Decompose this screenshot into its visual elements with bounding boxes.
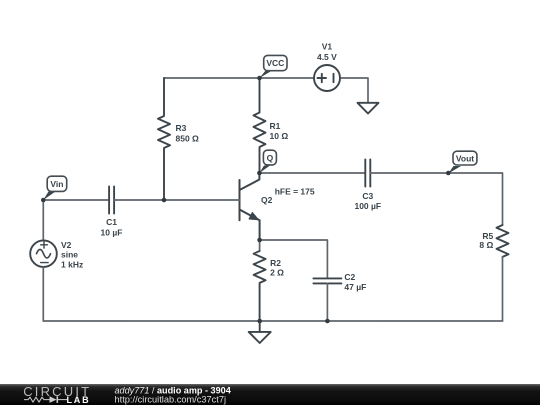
svg-text:850 Ω: 850 Ω xyxy=(176,134,200,144)
wire emitter to R2 xyxy=(259,240,261,251)
svg-text:R3: R3 xyxy=(176,123,187,133)
junction bottom ground xyxy=(257,319,262,324)
svg-text:Q: Q xyxy=(267,153,274,163)
svg-text:sine: sine xyxy=(61,250,78,260)
wire emitter tee to C2 xyxy=(260,240,328,278)
logo resistor-diode line xyxy=(24,397,67,402)
svg-text:Q2: Q2 xyxy=(261,195,273,205)
svg-text:V2: V2 xyxy=(61,240,72,250)
wire V2 to bottom rail xyxy=(42,267,44,321)
voltage source V2 xyxy=(30,240,57,267)
voltage source V1 xyxy=(314,65,340,91)
svg-text:VCC: VCC xyxy=(266,58,284,68)
svg-text:47 µF: 47 µF xyxy=(344,282,366,292)
svg-text:4.5 V: 4.5 V xyxy=(317,52,337,62)
node tag VCC xyxy=(260,55,288,78)
svg-text:http://circuitlab.com/c37ct7j: http://circuitlab.com/c37ct7j xyxy=(115,394,227,404)
svg-text:C1: C1 xyxy=(106,217,117,227)
junction C2 bottom xyxy=(325,319,330,324)
wire C3 to R5 corner xyxy=(370,173,502,225)
junction R3-base xyxy=(162,198,167,203)
transistor Q2 xyxy=(240,173,260,240)
wire top rail VCC xyxy=(164,77,314,79)
resistor R3 xyxy=(158,78,170,200)
resistor R2 xyxy=(254,251,266,321)
junction VCC node xyxy=(257,76,262,81)
junction emitter node xyxy=(257,238,262,243)
wire C2 to bottom rail xyxy=(326,283,328,321)
svg-text:R1: R1 xyxy=(270,121,281,131)
svg-text:Vout: Vout xyxy=(456,153,474,163)
svg-text:hFE = 175: hFE = 175 xyxy=(275,187,315,197)
wire bottom rail xyxy=(43,320,502,322)
resistor R1 xyxy=(254,78,266,173)
capacitor C2 xyxy=(313,278,341,283)
wire V1 right to ground xyxy=(340,78,368,103)
svg-text:Vin: Vin xyxy=(50,179,63,189)
resistor R5 xyxy=(497,225,509,257)
svg-text:10 µF: 10 µF xyxy=(101,228,123,238)
svg-text:100 µF: 100 µF xyxy=(354,201,381,211)
svg-text:V1: V1 xyxy=(322,42,333,52)
junction collector node xyxy=(257,171,262,176)
ground (near V1) xyxy=(358,103,379,114)
node tag Q xyxy=(259,150,276,173)
wire collector to C3 xyxy=(260,172,366,174)
capacitor C3 xyxy=(365,160,370,187)
wire input rail right to base xyxy=(114,199,239,201)
svg-text:2 Ω: 2 Ω xyxy=(270,268,284,278)
svg-text:R2: R2 xyxy=(270,258,281,268)
svg-text:C3: C3 xyxy=(362,191,373,201)
wire Vin to V2 xyxy=(42,200,44,241)
svg-text:10 Ω: 10 Ω xyxy=(270,131,289,141)
node tag Vout xyxy=(448,151,477,173)
wire R5 to bottom rail xyxy=(502,257,504,321)
svg-text:C2: C2 xyxy=(344,272,355,282)
svg-text:1 kHz: 1 kHz xyxy=(61,260,83,270)
logo diode xyxy=(50,396,59,403)
svg-text:LAB: LAB xyxy=(67,395,91,405)
capacitor C1 xyxy=(109,187,114,214)
svg-text:8 Ω: 8 Ω xyxy=(479,240,493,250)
junction Vin node xyxy=(41,198,46,203)
ground (bottom) xyxy=(249,321,271,343)
node tag Vin xyxy=(43,176,66,200)
wire input rail left xyxy=(43,199,109,201)
junction Vout node xyxy=(446,171,451,176)
